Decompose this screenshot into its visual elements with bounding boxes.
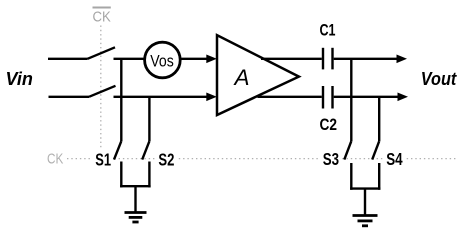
svg-text:Vin: Vin	[6, 69, 33, 89]
svg-text:CK: CK	[47, 151, 63, 168]
svg-text:CK: CK	[93, 9, 111, 26]
svg-text:C2: C2	[320, 115, 338, 134]
svg-text:Vos: Vos	[150, 52, 174, 71]
svg-text:S3: S3	[323, 149, 340, 169]
svg-text:S1: S1	[95, 150, 111, 170]
svg-text:Vout: Vout	[421, 69, 457, 89]
svg-text:S2: S2	[158, 150, 174, 170]
svg-text:A: A	[232, 65, 249, 90]
svg-text:S4: S4	[386, 149, 403, 169]
svg-text:C1: C1	[320, 20, 336, 39]
